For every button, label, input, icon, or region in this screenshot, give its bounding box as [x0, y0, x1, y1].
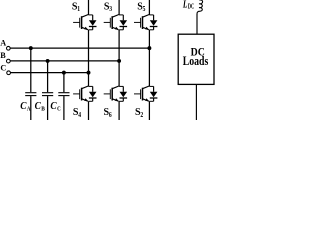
wire: capacitor CC top lead — [63, 73, 65, 93]
wire: phase C line — [10, 72, 88, 74]
switch S5 (IGBT + diode) — [134, 14, 157, 29]
wire: leg3 midpoint vertical — [148, 30, 150, 87]
switch S6 (IGBT + diode) — [104, 86, 127, 101]
wire: capacitor CA top lead — [30, 48, 32, 92]
wire: leg1 midpoint vertical — [88, 30, 90, 87]
node: phase A to leg3 junction — [147, 46, 151, 50]
svg-text:A: A — [27, 105, 31, 112]
svg-text:Loads: Loads — [183, 54, 209, 68]
wire: phase B line — [10, 60, 119, 62]
node: CB tap junction on phase B — [46, 59, 50, 63]
svg-text:4: 4 — [78, 111, 81, 119]
svg-text:1: 1 — [77, 5, 80, 13]
svg-text:3: 3 — [109, 5, 112, 13]
wire: leg1 collector to top rail — [88, 0, 90, 15]
capacitor CC plates — [58, 93, 69, 96]
switch S3 (IGBT + diode) — [104, 14, 127, 29]
node: phase B to leg2 junction — [117, 59, 121, 63]
wire: capacitor CA bottom lead — [30, 96, 32, 120]
switch S4 (IGBT + diode) — [73, 86, 96, 101]
svg-text:C: C — [57, 105, 61, 112]
wire: capacitor CB top lead — [47, 61, 49, 92]
terminal C circle — [7, 71, 11, 75]
svg-text:L: L — [182, 0, 187, 11]
capacitor CB plates — [42, 93, 53, 96]
wire: leg1 emitter to bottom rail — [88, 101, 90, 120]
terminal A circle — [7, 46, 11, 50]
wire: DC loads box to bottom rail — [195, 84, 197, 120]
svg-text:DC: DC — [188, 3, 194, 10]
capacitor CA plates — [25, 93, 36, 96]
wire: leg3 emitter to bottom rail — [148, 101, 150, 120]
node: CA tap junction on phase A — [29, 46, 33, 50]
wire: leg2 collector to top rail — [118, 0, 120, 15]
svg-text:5: 5 — [143, 5, 146, 13]
svg-text:B: B — [0, 51, 6, 60]
wire: leg2 emitter to bottom rail — [118, 101, 120, 120]
svg-text:2: 2 — [140, 111, 143, 119]
wire: leg3 collector to top rail — [148, 0, 150, 15]
terminal B circle — [7, 59, 11, 63]
wire: capacitor CB bottom lead — [47, 96, 49, 120]
wire: inductor to DC loads box — [196, 14, 198, 34]
switch S1 (IGBT + diode) — [73, 14, 96, 29]
node: CC tap junction on phase C — [62, 71, 66, 75]
wire: capacitor CC bottom lead — [63, 96, 65, 120]
svg-text:A: A — [0, 39, 6, 48]
svg-text:B: B — [41, 105, 45, 112]
inductor LDC coil — [197, 0, 203, 14]
wire: leg2 midpoint vertical — [118, 30, 120, 87]
svg-text:C: C — [0, 63, 6, 72]
svg-text:6: 6 — [109, 111, 112, 119]
wire: phase A line — [10, 47, 149, 49]
switch S2 (IGBT + diode) — [134, 86, 157, 101]
node: phase C to leg1 junction — [87, 71, 91, 75]
DC loads box — [178, 34, 214, 84]
